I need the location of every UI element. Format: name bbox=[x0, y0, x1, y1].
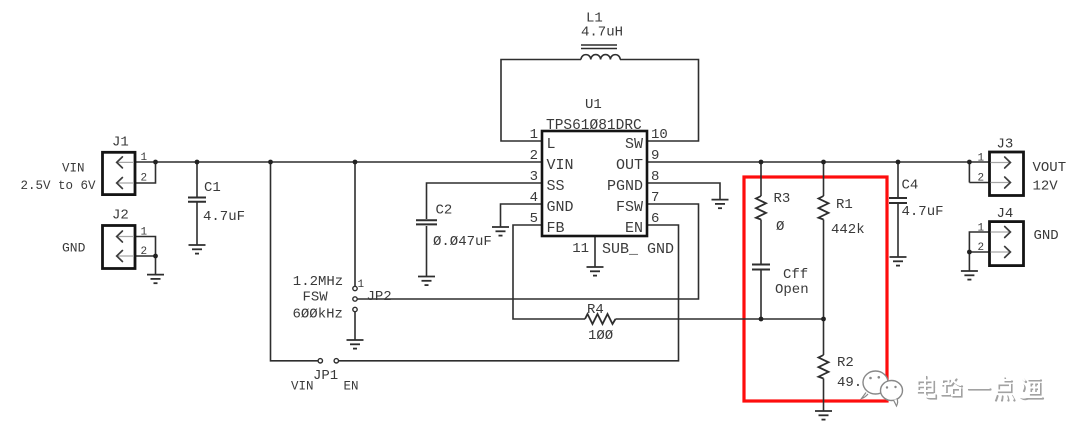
svg-text:PGND: PGND bbox=[607, 178, 643, 195]
svg-text:7: 7 bbox=[651, 190, 659, 206]
svg-text:3: 3 bbox=[530, 169, 538, 185]
svg-text:Ø.Ø47uF: Ø.Ø47uF bbox=[433, 234, 492, 250]
svg-text:VIN: VIN bbox=[291, 379, 314, 393]
svg-text:J3: J3 bbox=[997, 137, 1014, 153]
svg-text:4: 4 bbox=[530, 190, 538, 206]
svg-text:FSW: FSW bbox=[616, 199, 643, 216]
svg-text:1: 1 bbox=[530, 127, 538, 143]
svg-text:J1: J1 bbox=[112, 135, 129, 151]
svg-text:10: 10 bbox=[651, 127, 668, 143]
svg-text:R3: R3 bbox=[774, 191, 791, 207]
svg-text:2: 2 bbox=[141, 173, 148, 185]
svg-text:C2: C2 bbox=[436, 203, 453, 219]
svg-text:1: 1 bbox=[141, 152, 148, 164]
svg-text:1: 1 bbox=[358, 279, 365, 291]
svg-text:6ØØkHz: 6ØØkHz bbox=[293, 306, 343, 322]
svg-text:442k: 442k bbox=[831, 222, 865, 238]
svg-text:EN: EN bbox=[625, 220, 643, 237]
svg-text:1: 1 bbox=[141, 227, 148, 239]
svg-text:SUB_ GND: SUB_ GND bbox=[602, 241, 674, 258]
svg-text:8: 8 bbox=[651, 169, 659, 185]
svg-text:GND: GND bbox=[1034, 228, 1059, 244]
svg-text:1ØØ: 1ØØ bbox=[588, 328, 613, 344]
svg-text:SW: SW bbox=[625, 136, 643, 153]
svg-text:Ø: Ø bbox=[776, 219, 784, 235]
svg-text:Open: Open bbox=[775, 282, 809, 298]
svg-text:2: 2 bbox=[141, 246, 148, 258]
svg-text:OUT: OUT bbox=[616, 157, 643, 174]
svg-text:VIN: VIN bbox=[62, 162, 85, 176]
svg-text:Cff: Cff bbox=[783, 267, 808, 283]
svg-text:L: L bbox=[547, 136, 556, 153]
svg-text:4.7uF: 4.7uF bbox=[203, 209, 245, 225]
svg-text:4.7uH: 4.7uH bbox=[581, 25, 623, 41]
svg-text:JP1: JP1 bbox=[313, 368, 338, 384]
svg-text:JP2: JP2 bbox=[367, 289, 392, 305]
svg-text:U1: U1 bbox=[585, 97, 602, 113]
svg-text:TPS61Ø81DRC: TPS61Ø81DRC bbox=[546, 118, 642, 134]
svg-text:FSW: FSW bbox=[303, 290, 329, 306]
svg-text:J2: J2 bbox=[112, 208, 129, 224]
svg-text:R4: R4 bbox=[587, 302, 604, 318]
svg-text:GND: GND bbox=[62, 241, 86, 256]
svg-text:2.5V to 6V: 2.5V to 6V bbox=[21, 179, 97, 193]
svg-text:FB: FB bbox=[547, 220, 565, 237]
svg-text:J4: J4 bbox=[997, 206, 1014, 222]
svg-text:6: 6 bbox=[651, 211, 659, 227]
svg-text:SS: SS bbox=[547, 178, 565, 195]
svg-text:GND: GND bbox=[547, 199, 574, 216]
svg-text:4.7uF: 4.7uF bbox=[902, 204, 944, 220]
svg-text:2: 2 bbox=[978, 242, 985, 254]
svg-text:C4: C4 bbox=[902, 178, 919, 194]
svg-text:R2: R2 bbox=[837, 355, 854, 371]
svg-text:VOUT: VOUT bbox=[1033, 160, 1067, 176]
svg-text:2: 2 bbox=[530, 148, 538, 164]
svg-text:11: 11 bbox=[572, 241, 589, 257]
svg-text:1: 1 bbox=[978, 153, 985, 165]
svg-text:EN: EN bbox=[344, 379, 359, 393]
svg-text:5: 5 bbox=[530, 211, 538, 227]
svg-text:1: 1 bbox=[978, 222, 985, 234]
svg-text:C1: C1 bbox=[204, 180, 221, 196]
svg-text:R1: R1 bbox=[836, 197, 853, 213]
svg-text:12V: 12V bbox=[1033, 179, 1059, 195]
svg-text:2: 2 bbox=[978, 173, 985, 185]
svg-text:VIN: VIN bbox=[547, 157, 574, 174]
svg-text:9: 9 bbox=[651, 148, 659, 164]
svg-text:1.2MHz: 1.2MHz bbox=[293, 274, 343, 290]
